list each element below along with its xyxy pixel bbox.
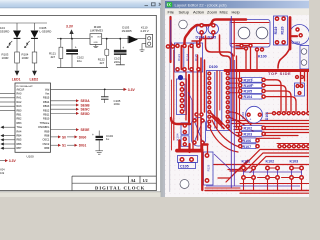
svg-text:3.3V: 3.3V [66, 24, 74, 28]
svg-text:Action: Action [193, 10, 204, 15]
svg-text:+: + [122, 46, 124, 50]
svg-text:S1: S1 [62, 144, 66, 148]
svg-text:R119: R119 [274, 26, 278, 34]
svg-text:4-15 V: 4-15 V [140, 29, 149, 33]
svg-text:1N4005: 1N4005 [122, 29, 133, 33]
svg-text:10k: 10k [0, 171, 5, 175]
svg-text:RB9: RB9 [44, 130, 49, 133]
svg-text:OSC2: OSC2 [42, 143, 49, 146]
svg-text:SEGD: SEGD [81, 112, 91, 116]
svg-text:R107: R107 [243, 145, 252, 149]
svg-text:RB4: RB4 [17, 135, 22, 138]
svg-text:RA0: RA0 [17, 93, 22, 96]
svg-text:RB2: RB2 [17, 118, 22, 121]
svg-text:+: + [250, 118, 252, 122]
svg-text:File: File [168, 10, 175, 15]
svg-text:R123: R123 [177, 54, 181, 62]
svg-text:RB12: RB12 [43, 109, 50, 112]
svg-text:R120: R120 [281, 26, 285, 34]
svg-text:A4: A4 [131, 179, 136, 183]
svg-text:100R: 100R [22, 56, 29, 60]
svg-text:R125: R125 [194, 54, 198, 62]
svg-text:Help: Help [232, 10, 241, 15]
svg-text:1u: 1u [106, 137, 110, 141]
svg-text:RB7: RB7 [17, 147, 22, 150]
svg-text:D104: D104 [196, 36, 205, 40]
svg-text:RB11: RB11 [43, 114, 50, 117]
svg-text:RA4: RA4 [17, 130, 22, 133]
svg-text:X04: X04 [0, 168, 5, 172]
svg-text:RA2: RA2 [17, 101, 22, 104]
svg-text:RB15: RB15 [43, 97, 50, 100]
svg-text:10u: 10u [77, 59, 82, 63]
svg-text:53SRD: 53SRD [0, 29, 9, 33]
svg-text:RB6: RB6 [17, 143, 22, 146]
svg-text:LM78M33: LM78M33 [90, 28, 103, 32]
svg-text:+: + [92, 133, 94, 137]
svg-text:RB0: RB0 [17, 109, 22, 112]
svg-text:4k7: 4k7 [51, 55, 56, 59]
svg-text:S0: S0 [62, 135, 66, 139]
svg-text:D101: D101 [265, 112, 269, 120]
svg-text:C105: C105 [180, 165, 189, 169]
svg-text:SEGE: SEGE [81, 128, 90, 132]
svg-text:OSC1: OSC1 [42, 139, 49, 142]
svg-text:100R: 100R [2, 56, 9, 60]
svg-text:OSCMRG: OSCMRG [38, 126, 49, 129]
svg-text:K101: K101 [242, 159, 251, 163]
svg-text:+: + [75, 46, 77, 50]
svg-text:220u: 220u [114, 60, 121, 64]
svg-text:DIG0: DIG0 [79, 135, 87, 139]
svg-text:C104: C104 [241, 112, 245, 120]
svg-text:4k7: 4k7 [100, 61, 105, 65]
svg-text:R104: R104 [244, 95, 253, 99]
svg-text:RA1: RA1 [17, 97, 22, 100]
svg-text:Vss: Vss [45, 93, 50, 96]
svg-text:RB1: RB1 [17, 114, 22, 117]
svg-text:D100: D100 [209, 65, 218, 69]
svg-text:Misc: Misc [220, 10, 228, 15]
svg-text:RA3: RA3 [17, 105, 22, 108]
svg-text:/MCLR: /MCLR [17, 88, 25, 91]
svg-text:LED2: LED2 [30, 77, 39, 81]
svg-text:3.3V: 3.3V [128, 88, 136, 92]
svg-text:100n: 100n [114, 102, 121, 106]
svg-text:RB14: RB14 [43, 101, 50, 104]
svg-text:T0se: T0se [17, 126, 23, 129]
svg-text:R105: R105 [244, 90, 253, 94]
svg-text:R103: R103 [244, 133, 253, 137]
svg-text:GND: GND [94, 42, 99, 44]
svg-text:RB10: RB10 [43, 118, 50, 121]
svg-text:RB3: RB3 [17, 122, 22, 125]
svg-text:U100: U100 [27, 155, 35, 159]
svg-text:K104: K104 [176, 133, 180, 140]
svg-text:Layout Editor 22 - (clock.pcb): Layout Editor 22 - (clock.pcb) [175, 3, 228, 8]
svg-text:R124: R124 [186, 54, 190, 62]
svg-text:1/2: 1/2 [143, 179, 148, 183]
svg-text:RB5: RB5 [17, 139, 22, 142]
svg-text:K103: K103 [290, 159, 299, 163]
svg-text:K102: K102 [266, 159, 275, 163]
svg-text:L-53SRD: L-53SRD [40, 29, 52, 33]
svg-text:R106: R106 [243, 139, 252, 143]
svg-text:RB9: RB9 [44, 147, 49, 150]
svg-text:C102: C102 [292, 41, 301, 45]
svg-text:Vdd: Vdd [45, 88, 50, 91]
svg-text:TOP SIDE: TOP SIDE [268, 71, 291, 76]
svg-text:DIGITAL CLOCK: DIGITAL CLOCK [95, 185, 145, 190]
svg-text:R102: R102 [244, 127, 253, 131]
svg-text:Setup: Setup [179, 10, 190, 15]
svg-text:RB8: RB8 [44, 135, 49, 138]
svg-text:Zoom: Zoom [207, 10, 218, 15]
svg-text:R126: R126 [207, 164, 211, 171]
svg-text:LED1: LED1 [12, 77, 21, 81]
svg-text:DIG1: DIG1 [79, 144, 87, 148]
svg-text:K100: K100 [258, 54, 267, 58]
svg-text:RB13: RB13 [43, 105, 50, 108]
svg-text:3.3V: 3.3V [9, 159, 17, 163]
svg-text:D105: D105 [208, 36, 217, 40]
svg-text:THStime: THStime [40, 122, 50, 125]
